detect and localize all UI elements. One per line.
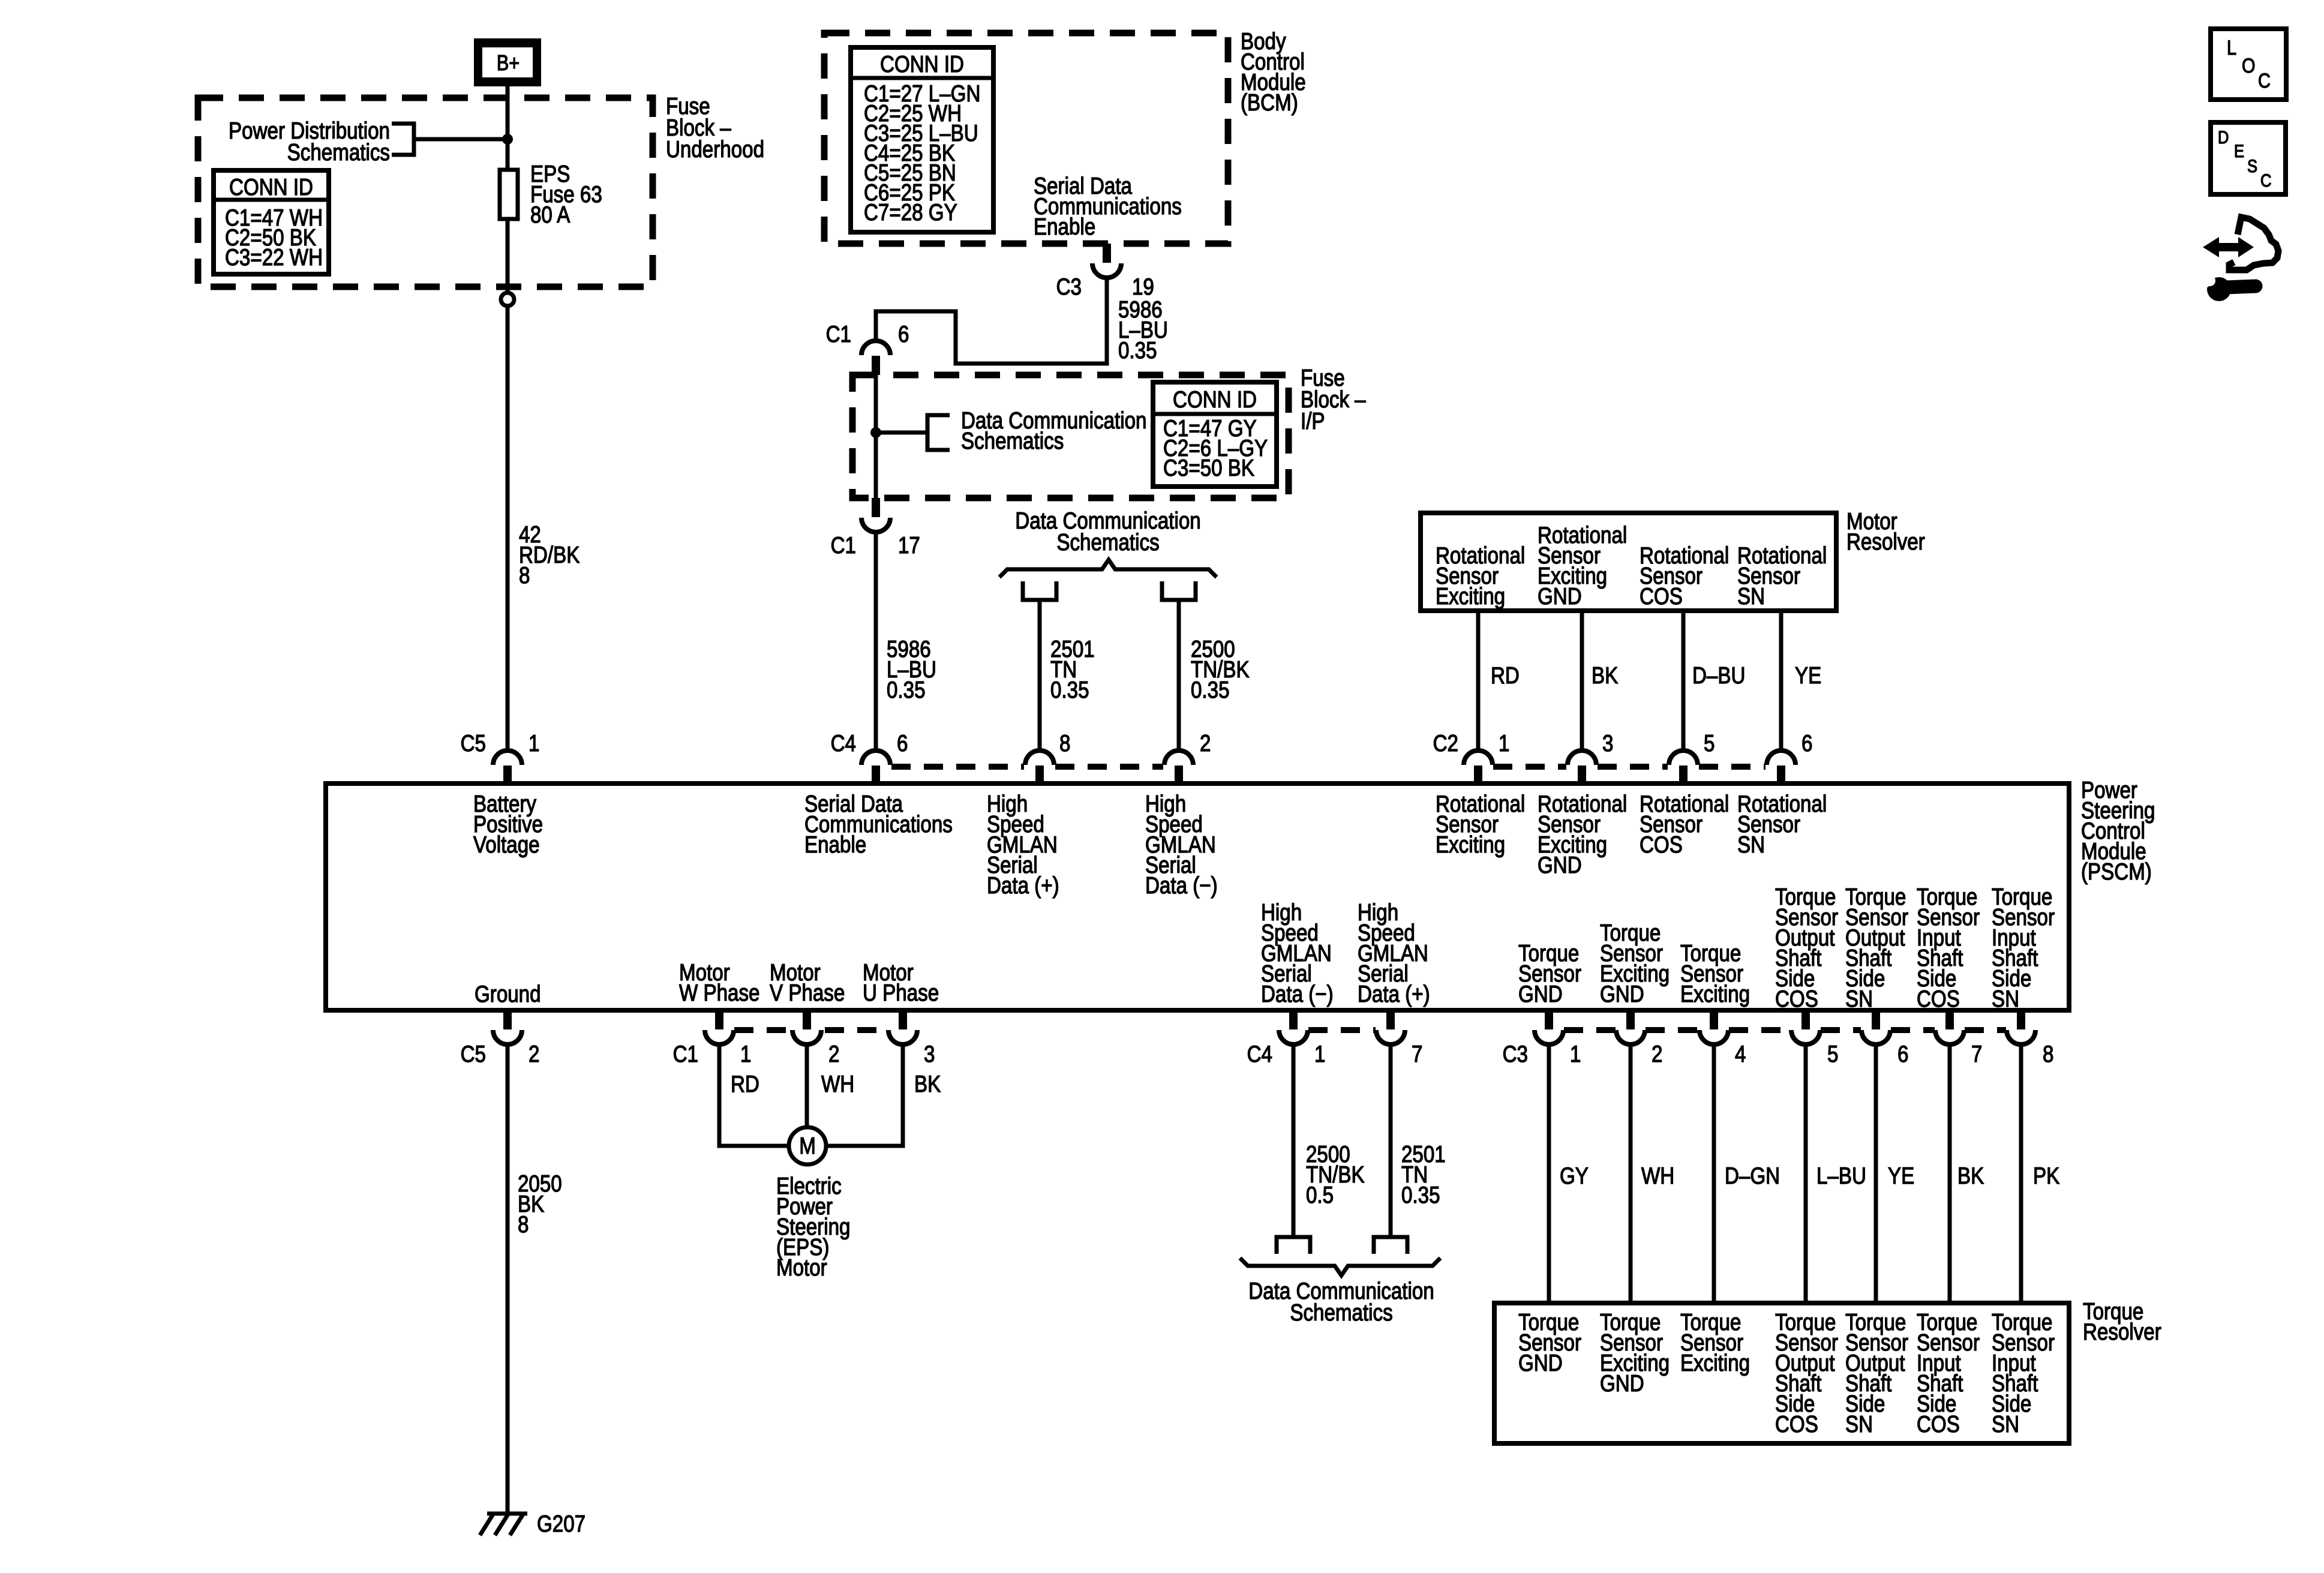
fuse block underhood dashed box [198,98,653,287]
LOC reference box [2211,29,2286,100]
svg-text:C3=50 BK: C3=50 BK [1163,454,1254,481]
brace under GMLAN stubs [1240,1258,1440,1275]
wire PK from C3 to torque resolver [2019,1044,2023,1303]
svg-text:0.35: 0.35 [1401,1181,1440,1208]
wire 2501 TN 0.35 to PSCM C4 pin 8 [1038,600,1042,751]
bracket to Power Distribution Schematics [392,124,508,155]
motor resolver pin labels [1436,521,1827,609]
svg-text:COS: COS [1640,583,1683,609]
svg-text:Data (−): Data (−) [1261,980,1334,1007]
svg-text:Data (−): Data (−) [1145,872,1218,898]
fuse block I/P dashed box [852,375,1289,498]
connector C4 pin 2 [1164,751,1193,785]
svg-text:5: 5 [1827,1040,1838,1067]
svg-text:Exciting: Exciting [1436,831,1505,857]
connector C3 pin 4 [1700,1010,1728,1044]
svg-text:GND: GND [1538,851,1582,878]
svg-text:0.35: 0.35 [887,676,926,703]
svg-text:Schematics: Schematics [961,427,1064,454]
connector C4 pin 6 [861,751,890,785]
label 2501 TN 0.35 [1401,1140,1446,1208]
connector bullet at fuse block exit [501,293,514,306]
wire B+ to fuse [506,84,510,171]
svg-text:RD: RD [1491,662,1520,688]
svg-text:I/P: I/P [1301,407,1325,434]
CONN ID table (underhood) [214,170,329,274]
svg-text:D–GN: D–GN [1725,1162,1780,1188]
label 8 [2043,1040,2053,1067]
svg-text:COS: COS [1775,985,1818,1011]
svg-text:YE: YE [1888,1162,1914,1188]
svg-text:6: 6 [1801,730,1812,756]
label G207 [537,1510,585,1536]
svg-text:CONN ID: CONN ID [1173,386,1257,412]
svg-text:8: 8 [518,1211,529,1237]
fuse EPS Fuse 63 80A [500,170,518,219]
DESC reference box [2211,122,2286,194]
svg-text:C5: C5 [461,730,486,756]
connector C3 pin 1 [1535,1010,1563,1044]
service icon wrench [2200,275,2256,301]
svg-text:0.35: 0.35 [1191,676,1230,703]
label RD [1491,662,1520,688]
svg-text:Enable: Enable [804,831,866,857]
connector C4 pin 8 [1025,751,1054,785]
svg-text:3: 3 [1602,730,1613,756]
svg-text:C3: C3 [1056,273,1082,299]
junction dot inside I/P block [870,427,881,438]
connector C3 pin 8 [2007,1010,2035,1044]
svg-text:8: 8 [519,562,530,588]
dashed tie C2 pins [1493,764,1765,770]
wire WH from C3 to torque resolver [1629,1044,1633,1303]
svg-text:U Phase: U Phase [863,979,939,1005]
label GY [1560,1162,1589,1188]
svg-text:W Phase: W Phase [679,979,759,1005]
svg-text:D: D [2218,127,2229,147]
battery feed B+ terminal [474,38,541,86]
label 2500 TN/BK 0.35 (top) [1191,635,1250,703]
svg-text:1: 1 [740,1040,751,1067]
label D-BU [1692,662,1745,688]
svg-text:GY: GY [1560,1162,1589,1188]
torque resolver pin labels [1518,1308,2055,1437]
label Power Steering Control Module (PSCM) [2081,776,2155,884]
label 5 [1704,730,1715,756]
wire 2050 BK 8 to ground [506,1044,510,1514]
label C4 6 [831,730,908,756]
svg-text:1: 1 [1570,1040,1581,1067]
svg-text:1: 1 [529,730,539,756]
wire D–GN from C3 to torque resolver [1712,1044,1716,1303]
wire BK from C3 to torque resolver [1948,1044,1952,1303]
connector C2 pin 3 [1568,751,1596,785]
svg-text:C3=22 WH: C3=22 WH [225,244,323,270]
svg-text:COS: COS [1917,985,1960,1011]
wire L–BU from C3 to torque resolver [1804,1044,1808,1303]
svg-text:Schematics: Schematics [1290,1299,1392,1325]
svg-text:BK: BK [1957,1162,1984,1188]
off-page stub for 2501 wire [1023,581,1056,600]
svg-text:G207: G207 [537,1510,585,1536]
wire RD resolver to C2 pin 1 [1476,611,1481,751]
svg-text:Exciting: Exciting [1436,583,1505,609]
svg-text:Enable: Enable [1034,213,1095,239]
label Data Communication Schematics (I/P) [961,407,1146,454]
wire YE from C3 to torque resolver [1874,1044,1878,1303]
svg-text:Exciting: Exciting [1680,1349,1750,1376]
svg-text:GND: GND [1538,583,1582,609]
bracket to Data Communication Schematics (I/P) [876,415,950,450]
svg-text:C1: C1 [673,1040,698,1067]
label WH [821,1070,854,1097]
svg-text:Schematics: Schematics [1056,529,1159,555]
label BK [1592,662,1618,688]
svg-text:Data (+): Data (+) [987,872,1059,898]
label D–GN [1725,1162,1780,1188]
svg-text:0.5: 0.5 [1306,1181,1334,1208]
label Body Control Module (BCM) [1241,28,1306,115]
wire YE resolver to C2 pin 6 [1779,611,1783,751]
label 5986 L-BU 0.35 (BCM side) [1118,296,1168,363]
svg-text:YE: YE [1795,662,1821,688]
label C1 6 [826,320,909,347]
label C1 17 [831,532,920,558]
label Electric Power Steering (EPS) Motor [776,1172,850,1280]
svg-text:3: 3 [924,1040,935,1067]
connector C3 pin 6 [1861,1010,1890,1044]
label C2 1 [1433,730,1510,756]
svg-text:Motor: Motor [776,1254,827,1280]
label 5986 L-BU 0.35 (PSCM side) [887,635,936,703]
label L–BU [1816,1162,1866,1188]
svg-text:Voltage: Voltage [473,831,540,857]
connector C5 pin 1 (battery positive) [493,751,522,785]
dashed tie C3 pins [1564,1027,2006,1033]
label 8 [1059,730,1070,756]
svg-text:2: 2 [529,1040,539,1067]
off-page stub for 2500 wire [1162,581,1196,600]
power steering control module PSCM box [326,784,2069,1010]
svg-text:SN: SN [1737,583,1765,609]
label C1 1 [673,1040,752,1067]
label C3 19 [1056,273,1154,299]
label 2 [1652,1040,1662,1067]
svg-text:V Phase: V Phase [770,979,845,1005]
label C4 1 [1247,1040,1326,1067]
svg-text:Ground: Ground [475,980,541,1007]
EPS motor M [789,1127,826,1164]
connector C1 pin 6 into fuse block I/P [861,341,890,375]
svg-text:COS: COS [1640,831,1683,857]
connector C3 pin 2 [1616,1010,1645,1044]
wire RD motor W phase [719,1044,791,1146]
svg-text:CONN ID: CONN ID [880,50,964,77]
connector C1 pin 3 [888,1010,917,1044]
svg-text:D–BU: D–BU [1692,662,1745,688]
label Serial Data Communications Enable (BCM) [1034,172,1182,239]
svg-text:7: 7 [1971,1040,1982,1067]
svg-text:Data (+): Data (+) [1358,980,1430,1007]
svg-text:7: 7 [1412,1040,1422,1067]
dashed tie C1 pins [734,1027,888,1033]
svg-text:2: 2 [828,1040,839,1067]
svg-text:WH: WH [1641,1162,1674,1188]
label Power Distribution Schematics [229,117,390,165]
svg-text:L: L [2227,36,2236,59]
PSCM pin function labels top [473,790,1827,898]
svg-text:O: O [2242,54,2255,77]
dashed tie C4 bottom pins [1308,1027,1376,1033]
svg-text:GND: GND [1600,1370,1644,1396]
service icon double arrow [2203,237,2254,257]
connector C3 pin 19 at BCM [1092,244,1121,278]
label 2050 BK 8 [518,1170,562,1237]
ground G207 [480,1514,527,1535]
dashed tie C4 top pins [891,764,1163,770]
label EPS Fuse 63 80 A [530,160,602,227]
svg-text:17: 17 [898,532,920,558]
torque resolver box [1494,1303,2069,1443]
label 5 [1827,1040,1838,1067]
svg-text:1: 1 [1499,730,1509,756]
label Fuse Block Underhood [666,92,764,162]
label YE [1795,662,1821,688]
svg-text:6: 6 [898,320,909,347]
svg-text:WH: WH [821,1070,854,1097]
svg-text:80 A: 80 A [530,201,571,227]
label 6 [1897,1040,1908,1067]
CONN ID table (BCM) [851,47,993,232]
svg-text:GND: GND [1518,1349,1563,1376]
wire 2501 TN 0.35 from C4 pin 7 [1389,1044,1393,1237]
svg-text:1: 1 [1314,1040,1325,1067]
wire WH motor V phase [805,1044,809,1127]
svg-text:BK: BK [1592,662,1618,688]
label WH [1641,1162,1674,1188]
svg-text:GND: GND [1518,980,1563,1007]
svg-text:(BCM): (BCM) [1241,89,1298,115]
svg-text:(PSCM): (PSCM) [2081,858,2152,884]
svg-text:0.35: 0.35 [1118,337,1157,363]
svg-text:8: 8 [1059,730,1070,756]
CONN ID table (I/P) [1153,382,1277,487]
connector C2 pin 1 [1464,751,1493,785]
label PK [2033,1162,2059,1188]
label Motor Resolver [1846,508,1925,554]
svg-text:CONN ID: CONN ID [229,173,313,200]
svg-text:M: M [799,1132,816,1158]
label C5 1 [461,730,540,756]
connector C3 pin 7 [1935,1010,1964,1044]
wire fuse to connector bullet [506,219,510,293]
label BK [914,1070,941,1097]
svg-text:6: 6 [1897,1040,1908,1067]
svg-text:Schematics: Schematics [287,139,390,165]
wire 2500 TN/BK 0.5 from C4 pin 1 [1292,1044,1296,1237]
label 7 [1971,1040,1982,1067]
svg-text:0.35: 0.35 [1050,676,1089,703]
svg-text:C2: C2 [1433,730,1458,756]
label Torque Resolver [2083,1298,2161,1344]
label C3 1 [1503,1040,1581,1067]
svg-text:SN: SN [1737,831,1765,857]
svg-text:C: C [2260,170,2271,190]
svg-text:2: 2 [1652,1040,1662,1067]
label 3 [1602,730,1613,756]
connector C1 pin 17 leaving fuse block I/P [861,498,890,532]
svg-text:SN: SN [1992,1410,2019,1437]
label wire 42 RD/BK 8 [519,521,580,588]
svg-text:E: E [2234,141,2244,161]
svg-text:C4: C4 [831,730,856,756]
label 2 [828,1040,839,1067]
wire inside fuse block I/P [874,375,878,498]
svg-text:C1: C1 [831,532,856,558]
svg-text:L–BU: L–BU [1816,1162,1866,1188]
connector C5 pin 2 (ground) [493,1010,522,1044]
svg-text:4: 4 [1735,1040,1746,1067]
connector C2 pin 5 [1669,751,1698,785]
svg-text:2: 2 [1200,730,1211,756]
label RD [731,1070,759,1097]
wire 5986 L-BU 0.35 from BCM [876,277,1107,364]
svg-text:C4: C4 [1247,1040,1272,1067]
label BK [1957,1162,1984,1188]
svg-text:SN: SN [1845,985,1873,1011]
motor resolver box [1421,513,1836,611]
svg-text:C7=28 GY: C7=28 GY [864,199,957,225]
connector C1 pin 2 [792,1010,821,1044]
wire 42 RD/BK 8 down to PSCM C5 pin 1 [506,306,510,751]
svg-text:Underhood: Underhood [666,136,764,162]
svg-text:B+: B+ [497,52,520,76]
svg-text:C5: C5 [461,1040,486,1067]
label 2500 TN/BK 0.5 [1306,1140,1365,1208]
label Fuse Block I/P [1301,364,1366,434]
label Data Communication Schematics (GMLAN top) [1015,507,1200,555]
svg-text:COS: COS [1775,1410,1818,1437]
label C5 2 [461,1040,540,1067]
connector C3 pin 5 [1791,1010,1820,1044]
connector C4 pin 1 [1279,1010,1308,1044]
svg-text:COS: COS [1917,1410,1960,1437]
svg-text:5: 5 [1704,730,1715,756]
PSCM pin function labels bottom [475,883,2055,1011]
svg-text:Exciting: Exciting [1680,980,1750,1007]
label 2501 TN 0.35 (top) [1050,635,1095,703]
svg-text:6: 6 [897,730,908,756]
off-page stub for 2500 wire (bottom) [1277,1237,1310,1254]
svg-text:GND: GND [1600,980,1644,1007]
brace over GMLAN stubs [999,560,1217,577]
label 2 [1200,730,1211,756]
label 6 [1801,730,1812,756]
svg-text:C3: C3 [1503,1040,1528,1067]
svg-text:C: C [2258,69,2271,92]
svg-text:BK: BK [914,1070,941,1097]
label 7 [1412,1040,1422,1067]
junction dot at B+ feed [502,134,513,145]
label YE [1888,1162,1914,1188]
wire D-BU resolver to C2 pin 5 [1682,611,1686,751]
svg-text:PK: PK [2033,1162,2059,1188]
label 3 [924,1040,935,1067]
connector C2 pin 6 [1767,751,1795,785]
svg-text:C1: C1 [826,320,851,347]
wire 2500 TN/BK 0.35 to PSCM C4 pin 2 [1177,600,1181,751]
connector C4 pin 7 [1376,1010,1405,1044]
service icon part outline [2229,217,2278,270]
wire GY from C3 to torque resolver [1547,1044,1551,1303]
svg-text:Resolver: Resolver [2083,1318,2161,1344]
wire BK resolver to C2 pin 3 [1580,611,1584,751]
body control module BCM dashed box [824,33,1228,244]
svg-text:SN: SN [1845,1410,1873,1437]
label Data Communication Schematics (bottom) [1248,1277,1434,1325]
connector C1 pin 1 [705,1010,734,1044]
svg-text:Resolver: Resolver [1846,528,1925,554]
wire BK motor U phase [824,1044,903,1146]
svg-text:SN: SN [1992,985,2019,1011]
wire 5986 L-BU 0.35 to PSCM C4 pin 6 [874,532,878,751]
svg-text:S: S [2247,156,2257,176]
svg-text:8: 8 [2043,1040,2053,1067]
svg-text:RD: RD [731,1070,759,1097]
label 4 [1735,1040,1746,1067]
off-page stub for 2501 wire (bottom) [1374,1237,1407,1254]
